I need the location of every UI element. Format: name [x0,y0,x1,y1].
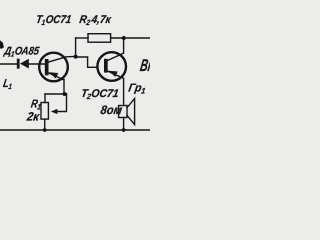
svg-text:Т2ОС71: Т2ОС71 [80,88,120,101]
svg-text:Т1ОС71: Т1ОС71 [35,13,72,27]
svg-text:R24,7к: R24,7к [78,14,112,27]
svg-text:Д1ОА85: Д1ОА85 [2,46,40,59]
svg-text:8ом: 8ом [100,103,124,117]
